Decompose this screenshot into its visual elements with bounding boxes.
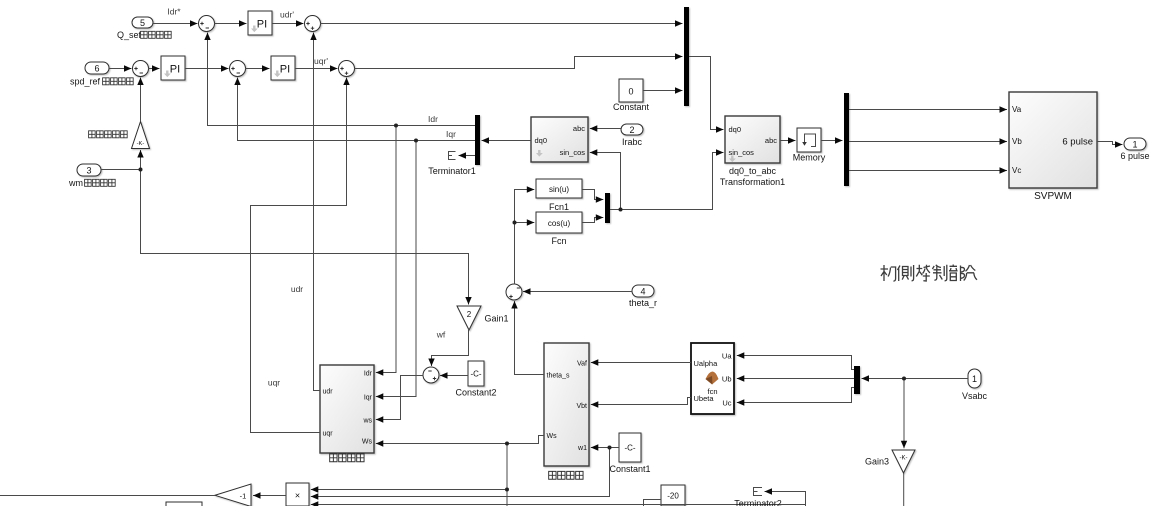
svg-text:w1: w1 [577,445,587,452]
constant 0 [619,79,643,102]
svg-text:-20: -20 [667,492,679,501]
wire port6 to S3 [109,68,132,70]
wire w1 branch to product [311,448,610,497]
svg-text:uqr: uqr [323,431,334,438]
matlab function block fcn [691,343,734,414]
svg-text:1: 1 [1132,140,1137,150]
wire S5 to mux M1 [354,57,683,69]
svg-text:Terminator2: Terminator2 [734,499,782,506]
svg-text:Ua: Ua [722,352,732,361]
wire PI1 to S2 [272,23,304,25]
wire abc_to_dq0 out to demux D1 [482,140,532,142]
svg-text:-C-: -C- [470,370,481,379]
svg-text:Memory: Memory [793,153,826,163]
svg-text:4: 4 [640,287,645,297]
gain -1 (left) [215,484,251,506]
svg-text:5: 5 [140,18,145,28]
subsystem voltage feedforward [320,365,374,453]
svg-text:uqr: uqr [268,378,280,388]
wire D2 to Ua [737,356,854,370]
wire D3 to SVPWM Vb [849,141,1007,143]
svg-text:Va: Va [1012,105,1022,114]
sum S6 theta [506,284,522,300]
inport 5 Q_sef [132,17,153,28]
node product in1 junction [505,488,509,492]
label gear ratio cjk [89,131,96,138]
wire S3 to PI2 [148,68,160,70]
wire -20 input [644,500,662,506]
PID PI1 [248,11,272,35]
wire S1 to PI1 [214,23,247,25]
wire Ws branch down [506,444,508,506]
wire D3 to SVPWM Va [849,109,1007,111]
svg-text:Q_sef: Q_sef [117,30,142,40]
svg-text:spd_ref: spd_ref [70,77,101,87]
node Idr junction [394,124,398,128]
wire Idr feedback demux to S1 [208,33,476,126]
wire Iqr branch to vff [376,141,416,397]
svg-text:Vc: Vc [1012,166,1021,175]
svg-text:dq0: dq0 [729,125,742,134]
wire vff udr to S2 [314,33,321,391]
svg-text:Ws: Ws [362,439,373,446]
wire Constant1 to w1 [591,447,619,449]
svg-text:Iqr: Iqr [364,395,373,402]
svg-text:Idr: Idr [364,371,373,378]
svg-text:SVPWM: SVPWM [1034,191,1072,202]
wire Constant0 to mux M1 [643,90,683,92]
svg-text:Fcn1: Fcn1 [549,202,569,212]
wire S2 to mux M1 [320,23,683,25]
wire branch to cos Fcn [515,222,535,224]
wire S7 out to vff ws [376,376,424,420]
wire sin to mux M2 [582,190,603,200]
svg-text:Uc: Uc [722,399,731,408]
svg-text:abc: abc [765,136,777,145]
svg-text:×: × [295,491,300,501]
demux D2 [854,366,860,394]
wire D2 to Ub [737,378,854,380]
svg-text:Constant2: Constant2 [455,388,496,398]
node w1 junction [608,446,612,450]
node Vsabc junction [902,377,906,381]
wire Idr branch to vff [376,126,396,373]
svg-text:Gain3: Gain3 [865,457,889,467]
svg-text:PI: PI [170,64,180,76]
sum S2 [305,16,321,32]
gain gear ratio -K- (up) [132,122,150,149]
wire Terminator2 feed [765,492,806,506]
wire flux Ws to vff Ws [376,436,544,444]
inport 1 Vsabc (rotated pill) [968,369,981,388]
outport 1 6 pulse [1124,138,1146,150]
svg-text:Idr: Idr [428,114,438,124]
svg-text:dq0_to_abc: dq0_to_abc [729,166,777,176]
inport 3 wm [77,164,101,176]
svg-text:-K-: -K- [137,141,145,147]
svg-text:Ws: Ws [547,433,558,440]
wire theta_s to S6 [515,301,545,375]
inport 6 spd_ref [85,62,109,74]
svg-text:6 pulse: 6 pulse [1062,137,1093,148]
svg-text:theta_s: theta_s [547,373,570,380]
PID PI2 [161,56,185,80]
svg-text:wf: wf [436,330,446,340]
svg-text:-C-: -C- [624,444,635,453]
node sincos junction [513,221,517,225]
svg-text:-K-: -K- [900,456,908,462]
wire cos to mux M2 [582,218,603,223]
svg-text:sin(u): sin(u) [549,185,569,194]
wire Memory to demux D3 [821,140,843,142]
wire product out to gain -1 [253,495,286,497]
wire Gain1 to S7 wf [432,330,469,366]
sum S1 [199,16,215,32]
wire gear gain to S3 [140,78,142,122]
wire dq0_to_abc to Memory [780,140,796,142]
inport 4 theta_r [632,285,654,297]
subsystem flux observer [544,343,589,466]
wire D2 to Uc [737,388,854,403]
wire Vsabc branch to Gain3 [903,379,905,449]
svg-text:1: 1 [972,374,977,384]
sum S3 [133,61,149,77]
wire Constant2 to S7 [440,375,468,377]
wire Ws branch to product [311,489,507,491]
terminator Terminator1 [449,152,456,160]
svg-text:udr: udr [291,284,303,294]
gain Gain1 2 (down) [457,306,481,330]
svg-text:Ub: Ub [722,375,732,384]
label voltage feedforward cjk [330,454,337,462]
svg-text:-1: -1 [240,492,247,501]
wire demux D1 to Terminator1 [459,155,476,157]
svg-text:PI: PI [257,19,267,31]
wire mux M2 to sin_cos abc_to_dq0 [590,153,621,210]
subsystem SVPWM [1009,92,1097,188]
sum S5 [339,61,355,77]
node Ws junction [505,442,509,446]
mux M2 [605,193,610,223]
title machine side control cjk [881,265,978,282]
product block [286,483,309,506]
svg-text:Constant: Constant [613,102,650,112]
svg-text:Ualpha: Ualpha [694,359,719,368]
svg-text:Constant1: Constant1 [609,464,650,474]
wire mux M2 branch to dq0_to_abc sin_cos [621,153,724,210]
wire Irabc to abc input [590,128,621,130]
terminator Terminator2 [754,488,763,496]
svg-text:2: 2 [629,125,634,135]
svg-text:6: 6 [94,64,99,74]
svg-text:3: 3 [86,166,91,176]
demux D3 [844,93,849,186]
wire mux M1 to dq0_to_abc [689,57,724,130]
demux D1 [475,115,480,165]
fcn Fcn cos(u) [536,212,582,233]
unknown block bottom-left [166,502,202,506]
wire theta_r to S6 [523,291,632,293]
svg-text:udr: udr [323,389,334,396]
subsystem abc_to_dq0 [531,117,588,162]
inport 2 Irabc [621,124,643,135]
subsystem dq0_to_abc Transformation1 [725,116,780,163]
wire D3 to SVPWM Vc [849,170,1007,172]
svg-text:Iqr: Iqr [446,129,456,139]
svg-text:Irabc: Irabc [622,137,643,147]
svg-text:Transformation1: Transformation1 [720,177,785,187]
node wm junction [139,168,143,172]
constant Constant2 [468,361,484,386]
memory block [797,128,821,152]
node Iqr junction [414,139,418,143]
svg-text:2: 2 [467,310,472,319]
svg-text:0: 0 [628,87,633,97]
svg-text:Vb: Vb [1012,137,1022,146]
svg-text:Terminator1: Terminator1 [428,166,476,176]
wire Ualpha to Vaf [591,362,691,364]
svg-text:wm: wm [68,178,83,188]
sum S4 [230,61,246,77]
svg-text:cos(u): cos(u) [548,219,571,228]
svg-text:uqr': uqr' [314,56,328,66]
wire Iqr feedback demux to S4 [238,78,476,141]
mux M1 [684,7,689,106]
svg-text:ws: ws [362,418,372,425]
wire vff uqr to S5 [251,78,347,433]
gain Gain3 -K- (down) [892,450,915,473]
svg-text:Idr*: Idr* [167,7,181,17]
svg-text:abc: abc [573,124,585,133]
wire wm branch to Gain1 [141,170,469,305]
svg-text:udr': udr' [280,10,294,20]
PID PI3 [271,56,295,80]
svg-text:dq0: dq0 [535,136,548,145]
wire PI2 to S4 [185,68,229,70]
svg-text:Vbt: Vbt [576,403,587,410]
constant -20 [661,485,685,506]
svg-text:fcn: fcn [707,387,717,396]
svg-text:Fcn: Fcn [551,236,566,246]
wire Gain3 out down [903,473,905,506]
svg-text:sin_cos: sin_cos [560,148,586,157]
constant Constant1 [619,433,641,462]
label flux observer cjk [549,471,556,479]
wire wm to gear gain [101,150,141,170]
wire port5 to S1 [153,23,198,25]
svg-text:Vsabc: Vsabc [962,391,988,401]
svg-text:Vaf: Vaf [577,361,587,368]
svg-text:PI: PI [280,64,290,76]
svg-text:6 pulse: 6 pulse [1120,151,1149,161]
wire SVPWM to outport [1097,142,1123,145]
wire PI3 to S5 [295,68,338,70]
wire S4 to PI3 [245,68,270,70]
wire Ubeta to Vbt [591,398,691,405]
fcn Fcn1 sin(u) [536,179,582,198]
svg-text:theta_r: theta_r [629,298,657,308]
svg-text:Gain1: Gain1 [485,314,509,324]
wire S6 out to sin Fcn1 [515,190,535,285]
wire gain -1 out [0,495,215,497]
sum S7 ws [423,367,439,383]
wire Vsabc to demux D2 [862,378,969,380]
node M2 out junction [619,208,623,212]
wire product in3 [311,504,806,506]
